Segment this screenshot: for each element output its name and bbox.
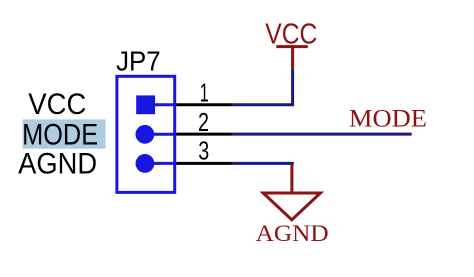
pin 2 lead <box>176 133 231 136</box>
pin 2 pad stub <box>145 133 176 136</box>
pin 1 pad stub <box>145 103 176 106</box>
pin 2 round pad <box>136 125 155 144</box>
wire pin1 to VCC <box>232 70 293 105</box>
pin 1 lead <box>176 103 231 106</box>
svg-text:MODE: MODE <box>22 118 98 151</box>
power symbol VCC stem <box>291 45 294 69</box>
pin 3 pad stub <box>145 162 176 165</box>
svg-text:VCC: VCC <box>265 19 317 51</box>
wire pin3 to AGND <box>232 162 294 165</box>
power symbol VCC bar <box>276 45 308 48</box>
svg-text:AGND: AGND <box>256 221 329 247</box>
pin 1 square pad <box>136 95 155 114</box>
pin 3 lead <box>176 162 231 165</box>
svg-text:VCC: VCC <box>28 88 86 121</box>
connector JP7 body <box>117 76 175 192</box>
svg-text:JP7: JP7 <box>116 45 161 76</box>
ground symbol AGND triangle <box>263 193 320 220</box>
svg-text:AGND: AGND <box>18 148 97 181</box>
node MODE highlight (selected pin-name) <box>23 119 106 148</box>
svg-text:2: 2 <box>198 107 209 137</box>
wire pin2 to MODE net <box>232 133 412 136</box>
ground symbol AGND stem <box>290 165 293 193</box>
svg-text:MODE: MODE <box>349 105 427 132</box>
svg-text:1: 1 <box>200 78 209 108</box>
pin 3 round pad <box>136 154 155 173</box>
svg-text:3: 3 <box>198 135 209 165</box>
